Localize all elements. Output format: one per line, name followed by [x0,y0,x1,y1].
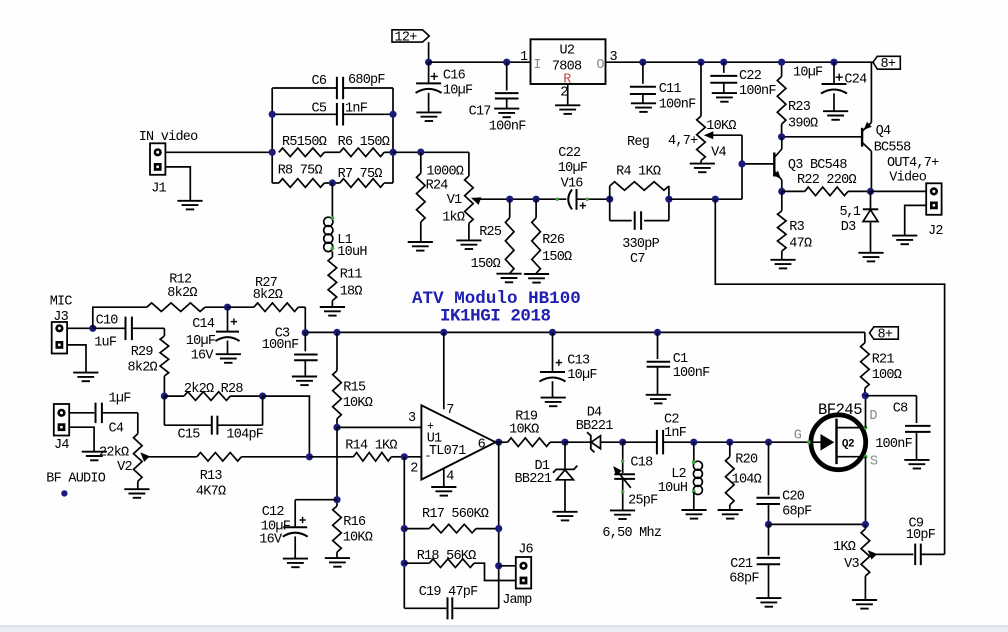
svg-text:C22: C22 [739,69,762,84]
ground C13 [541,397,566,399]
wire drain up [865,396,867,428]
svg-text:V3: V3 [844,557,859,572]
potentiometer V2 [137,413,139,434]
svg-text:8k2Ω: 8k2Ω [167,286,197,301]
resistor R26 [535,199,537,218]
wire rf line [694,441,810,443]
svg-text:R8 75Ω: R8 75Ω [278,164,323,179]
inductor L2 [693,442,695,461]
svg-text:10uH: 10uH [658,481,688,496]
wire V3 wiper to C9 [872,553,914,555]
resistor R18 [404,562,429,564]
wire U2 pin2 [567,84,569,105]
svg-text:R6 150Ω: R6 150Ω [338,135,390,150]
svg-text:10µF: 10µF [567,368,597,383]
svg-text:U2: U2 [560,43,575,58]
wire J4 pin2 ground [69,427,94,452]
node C11 [639,59,646,66]
svg-text:680pF: 680pF [348,73,385,88]
svg-text:6,50 Mhz: 6,50 Mhz [602,526,661,541]
svg-text:R15: R15 [343,380,366,395]
svg-text:BF245: BF245 [818,401,862,419]
resistor R7 [340,179,384,188]
svg-text:8k2Ω: 8k2Ω [253,288,283,303]
svg-text:V1: V1 [447,193,462,208]
svg-text:Video: Video [889,170,926,185]
svg-text:C11: C11 [659,82,682,97]
ground R16 [325,557,350,559]
node R23 top [778,59,785,66]
node out [867,188,874,195]
svg-text:1: 1 [520,50,528,65]
svg-text:C7: C7 [630,252,645,267]
svg-text:R4 1KΩ: R4 1KΩ [616,165,661,180]
svg-text:8+: 8+ [878,328,893,343]
ground D1 [552,511,577,513]
inductor L1 [324,217,333,226]
svg-text:16V: 16V [191,348,215,363]
node L2 top [690,439,697,446]
node audio sum [306,453,313,460]
resistor R11 [328,257,337,301]
node C1 top [654,329,661,336]
resistor R23 [781,62,783,76]
svg-text:R18 56KΩ: R18 56KΩ [417,549,476,564]
svg-text:1nF: 1nF [664,426,687,441]
svg-text:10µF: 10µF [186,334,216,349]
svg-text:C24: C24 [844,72,867,87]
svg-text:2: 2 [410,461,418,476]
node R6 right [389,149,396,156]
node C13 top [549,329,556,336]
wire 8+ to Q4 emitter [870,62,872,122]
node C5 left [269,111,276,118]
svg-text:Q4: Q4 [876,124,891,139]
svg-text:R23: R23 [788,100,811,115]
flag 12+ [392,30,429,42]
capacitor C21 [768,524,770,555]
svg-text:MIC: MIC [50,295,73,310]
svg-text:J3: J3 [53,310,68,325]
ground C12 [283,558,308,560]
wire wiper V1 [475,198,566,200]
node C20 top [765,439,772,446]
wire V2 wiper [146,456,197,458]
ground L2 [681,509,706,511]
svg-text:16V: 16V [259,532,283,547]
ground V2 [124,488,149,490]
svg-text:V2: V2 [117,460,132,475]
svg-text:1nF: 1nF [345,102,368,117]
ground J1 [177,200,202,202]
capacitor C5 [272,113,337,115]
svg-text:C4: C4 [109,421,124,436]
capacitor C22 100nF [723,62,725,73]
svg-text:R7 75Ω: R7 75Ω [338,167,383,182]
node R28 left [161,393,168,400]
svg-text:100nF: 100nF [875,437,912,452]
svg-text:C12: C12 [262,505,285,520]
svg-text:150Ω: 150Ω [542,250,572,265]
capacitor C14 [227,307,229,331]
node R25 top [506,196,513,203]
ground R25 [496,273,521,275]
node R26 top [533,196,540,203]
svg-text:22kΩ: 22kΩ [99,445,129,460]
capacitor C18 trimmer [622,442,624,473]
node out [495,439,502,446]
node Q3 emitter [778,188,785,195]
wire L1 to R11 [331,251,333,257]
svg-text:C17: C17 [469,104,492,119]
svg-text:R20: R20 [735,453,758,468]
resistor R22 [782,190,805,192]
potentiometer V4 [700,62,702,116]
svg-text:Q3 BC548: Q3 BC548 [788,158,847,173]
ground C18 [610,509,635,511]
svg-text:R24: R24 [426,179,449,194]
wire R15-R16 [336,427,338,506]
ground C22 [712,92,737,94]
resistor R27 [228,306,254,308]
svg-text:1uF: 1uF [94,335,117,350]
wire pin2 [404,456,421,458]
capacitor C19 [404,607,446,609]
wire J1 pin1 to node [165,151,272,153]
svg-text:Q2: Q2 [842,438,854,450]
capacitor C17 [506,62,508,90]
resistor R16 [333,506,342,552]
ground V3 [852,599,877,601]
ground U2 [555,104,580,106]
svg-text:390Ω: 390Ω [788,116,818,131]
svg-text:BC558: BC558 [874,140,911,155]
svg-text:S: S [870,454,878,469]
svg-text:8+: 8+ [881,57,896,72]
svg-text:J2: J2 [928,224,943,239]
resistor R28 [164,395,184,397]
svg-text:4,7+: 4,7+ [668,134,698,149]
node R24 top [417,149,424,156]
svg-text:R11: R11 [340,268,363,283]
svg-text:R13: R13 [200,469,223,484]
svg-text:10KΩ: 10KΩ [509,423,539,438]
svg-text:R5150Ω: R5150Ω [282,135,327,150]
connector J6 [516,557,531,589]
svg-text:J4: J4 [54,438,69,453]
node R12-R27 [224,304,231,311]
ground R11 [320,306,345,308]
IC U2 7808 [531,39,606,84]
svg-text:25pF: 25pF [628,494,658,509]
resistor R17 [404,528,429,530]
capacitor C15 box [163,396,165,425]
connector J3 [52,322,67,354]
node video in [269,149,276,156]
svg-text:12+: 12+ [395,31,418,46]
wire Q4 base [782,136,863,138]
svg-text:D: D [869,409,877,424]
svg-text:1000Ω: 1000Ω [426,165,463,180]
node R17 right [495,525,502,532]
connector J1 [150,143,165,175]
svg-text:C13: C13 [567,354,590,369]
svg-text:OUT4,7+: OUT4,7+ [887,156,939,171]
svg-text:100nF: 100nF [262,338,299,353]
svg-text:C19 47pF: C19 47pF [419,585,478,600]
svg-text:104pF: 104pF [226,427,263,442]
svg-text:C22: C22 [558,146,581,161]
node feedback [712,196,719,203]
resistor R24 [420,152,422,173]
node pin2 [401,453,408,460]
ground J2 [892,235,917,237]
bottom scrollbar strip [0,624,1008,626]
svg-text:O: O [596,58,604,73]
svg-text:3: 3 [408,411,416,426]
ground C14 [216,353,241,355]
resistor R3 [781,191,783,210]
diode D3 zener 5,1 [870,191,872,209]
svg-text:R16: R16 [343,515,366,530]
ground U1 [431,486,456,488]
connector J4 [54,404,69,436]
node C18/C2 [619,439,626,446]
wire V4/Q3 vertical [741,135,743,199]
wire R27 down [304,307,306,332]
svg-text:G: G [794,429,802,444]
capacitor C9 [914,544,916,566]
potentiometer V1 [468,152,470,176]
resistor R21 [864,332,866,342]
node V4 top [697,59,704,66]
node D1 [561,439,568,446]
node R28 right [259,393,266,400]
ground J4 [82,451,107,453]
node C17 [503,59,510,66]
node R17 left [401,525,408,532]
flag 8+ mid [870,327,899,339]
svg-text:1KΩ: 1KΩ [833,540,856,555]
svg-text:100nF: 100nF [673,366,710,381]
svg-text:5,1: 5,1 [840,205,861,220]
svg-text:C6: C6 [312,74,327,89]
wire R11 to ground [331,301,333,307]
svg-text:V16: V16 [561,176,584,191]
svg-text:10µF: 10µF [558,161,588,176]
capacitor C13 [552,332,554,371]
resistor R4 with C7 [609,186,611,221]
svg-text:R3: R3 [789,220,804,235]
capacitor C22 10uF V16 [556,198,559,201]
capacitor C3 [304,333,306,352]
wire video to R24 [393,151,469,153]
node BF dot [61,490,67,496]
svg-text:C15: C15 [178,427,201,442]
wire J3 pin2 ground [67,345,86,373]
svg-text:6: 6 [478,437,486,452]
capacitor C4 [95,403,97,424]
svg-text:R17 560KΩ: R17 560KΩ [422,507,489,522]
svg-text:18Ω: 18Ω [340,284,363,299]
svg-text:I: I [533,58,540,73]
svg-text:10µF: 10µF [793,65,823,80]
svg-text:R22 220Ω: R22 220Ω [797,173,856,188]
wire ladder left vertical [271,88,273,183]
svg-text:C8: C8 [893,402,908,417]
wire J3 pin1 [67,327,93,329]
capacitor C12 [295,499,337,501]
node C12 [333,496,340,503]
resistor R5 [279,148,325,157]
svg-text:104Ω: 104Ω [732,473,762,488]
wire R28 to audio node [263,396,310,457]
node Q3 base [738,160,745,167]
resistor R6 [340,148,384,157]
resistor R12 [147,303,205,312]
capacitor C8 [865,395,916,397]
svg-text:7: 7 [446,403,454,418]
diode D1 BB221 [564,442,566,469]
resistor R29 [163,328,165,336]
wire pin3 [337,426,421,428]
wire mic up [93,307,147,328]
svg-text:68pF: 68pF [729,572,759,587]
svg-text:J1: J1 [151,182,166,197]
svg-text:C20: C20 [782,490,805,505]
resistor R19 [496,441,508,443]
node mic [89,325,96,332]
svg-text:10uH: 10uH [337,245,367,260]
wire J6 pin1 [499,565,516,567]
svg-text:C16: C16 [443,68,466,83]
wire inverting rail [403,457,405,609]
wire to L1 [331,183,333,217]
svg-text:100nF: 100nF [489,119,526,134]
svg-text:150Ω: 150Ω [471,257,501,272]
ground C17 [494,108,519,110]
svg-text:2k2Ω R28: 2k2Ω R28 [184,382,243,397]
svg-text:10KΩ: 10KΩ [706,119,736,134]
flag 8+ top [873,56,900,69]
svg-text:10pF: 10pF [906,528,936,543]
node R20 top [726,439,733,446]
svg-text:R25: R25 [479,225,502,240]
ground V4 [690,163,715,165]
svg-text:1kΩ: 1kΩ [442,210,465,225]
svg-text:R21: R21 [872,353,895,368]
ground R26 [524,273,549,275]
transistor Q4 BC558 [861,128,863,147]
node J6 wire [495,562,502,569]
ground C11 [631,102,656,104]
resistor R13 [197,453,242,462]
svg-text:8k2Ω: 8k2Ω [128,360,158,375]
svg-text:D3: D3 [841,220,856,235]
wire ladder right vertical [392,88,394,183]
svg-text:Reg: Reg [627,135,649,150]
ground C8 [904,459,929,461]
svg-text:C18: C18 [630,456,653,471]
diode D4 BB221 [565,441,591,443]
wire output rail [498,442,500,608]
capacitor C20 [768,442,770,495]
capacitor C24 [830,59,837,66]
svg-text:TL071: TL071 [429,444,466,459]
resistor R20 [729,442,731,457]
ground C1 [646,394,671,396]
node C3 top [302,329,309,336]
svg-text:IN video: IN video [139,130,198,145]
svg-text:10µF: 10µF [443,84,473,99]
ground R24 [408,241,433,243]
wire U2 out rail [606,61,874,63]
ground J3 [73,372,98,374]
svg-text:C14: C14 [192,317,215,332]
ground C21 [756,597,781,599]
node pin7 [440,329,447,336]
feedback wire down-right [715,199,944,554]
svg-text:R26: R26 [542,233,565,248]
svg-text:R14 1KΩ: R14 1KΩ [345,438,397,453]
svg-text:100nF: 100nF [659,97,696,112]
svg-text:V4: V4 [711,145,726,160]
ground C3 [292,376,317,378]
node C22 [720,59,727,66]
capacitor C11 [642,62,644,84]
svg-text:4K7Ω: 4K7Ω [196,484,226,499]
svg-text:BB221: BB221 [515,472,552,487]
svg-text:BB221: BB221 [576,419,613,434]
node C20 bottom [765,521,772,528]
wire pin7 [443,332,445,409]
svg-text:Jamp: Jamp [502,593,532,608]
node drain [862,392,869,399]
wire R4 to feedback node [669,198,742,200]
transistor Q3 BC548 [773,153,775,177]
capacitor C1 [657,332,659,359]
ground C16 [416,111,441,113]
wire main bus [305,331,865,333]
svg-text:BF AUDIO: BF AUDIO [46,472,105,487]
op-amp U1 TL071 [421,405,495,479]
wire 12+ to rail [428,42,430,62]
resistor R25 [509,199,511,218]
node R18 left [401,560,408,567]
node C5 right [389,111,396,118]
node source bottom [862,521,869,528]
wire pin4 ground [443,468,445,487]
resistor R14 [353,453,391,462]
svg-text:330pP: 330pP [622,237,659,252]
node pin3 [333,424,340,431]
svg-text:100Ω: 100Ω [872,368,902,383]
node R4 right [665,196,672,203]
wire J2 pin2 ground [905,205,927,235]
svg-text:C5: C5 [312,102,327,117]
node R15 top [333,329,340,336]
capacitor C7 [610,220,632,222]
node R4 left [606,196,613,203]
potentiometer V3 [861,529,870,576]
ground R20 [718,509,743,511]
svg-text:-: - [424,449,430,463]
ground V1 [456,239,481,241]
wire rail to U2 [429,61,531,63]
node R23 bottom [778,133,785,140]
resistor R15 [336,332,338,370]
capacitor C16 [428,62,430,83]
